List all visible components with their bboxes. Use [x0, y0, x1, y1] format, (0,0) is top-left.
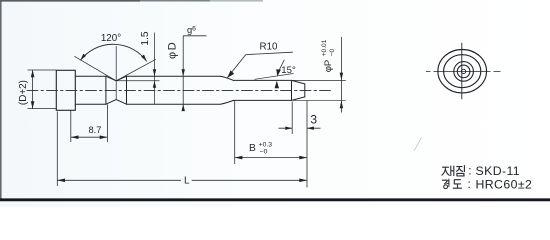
- border left edge: [0, 0, 2, 199]
- R10 leader: [227, 52, 292, 77]
- label phiP with tolerance rotated: [321, 39, 336, 72]
- svg-text:φP: φP: [323, 60, 334, 73]
- arrowheads: [31, 54, 343, 182]
- border top edge: [0, 0, 140, 2]
- svg-text:1.5: 1.5: [140, 31, 151, 45]
- arrow 1.5 bottom (up): [153, 81, 156, 88]
- dim 120 left flank line: [74, 56, 116, 81]
- dim phiP extension lines: [293, 80, 346, 100]
- arrow 3 left (points right): [285, 127, 292, 130]
- svg-text:HRC60±2: HRC60±2: [476, 178, 533, 192]
- arrow 1.5 top (down): [153, 69, 156, 76]
- end view: [426, 43, 501, 99]
- arrow phiD bottom (up, outside): [182, 104, 185, 111]
- groove right face: [126, 76, 128, 104]
- dim L extension left: [56, 112, 58, 187]
- pin head: [56, 70, 75, 110]
- svg-text:−0: −0: [329, 48, 336, 56]
- pin thin shaft: [234, 80, 292, 100]
- dim phiD line: [182, 36, 184, 111]
- svg-text:L: L: [184, 176, 190, 187]
- dim 120 apex line: [115, 46, 117, 100]
- arrow (D+2) top: [31, 70, 35, 77]
- dim 3 extension left: [291, 102, 293, 135]
- arrow L right: [299, 179, 307, 183]
- arrow L left: [57, 179, 65, 183]
- dim B line: [235, 157, 307, 159]
- svg-text:3: 3: [310, 113, 317, 127]
- arrow R10 leader: [227, 70, 234, 78]
- end view tiny center circle: [461, 69, 465, 73]
- arrow 8.7 left: [71, 135, 79, 139]
- svg-text:(D+2): (D+2): [18, 80, 29, 105]
- arrow 8.7 right: [100, 135, 108, 139]
- dim L line: [57, 179, 307, 181]
- border bottom edge: [0, 198, 550, 201]
- hangul 재: [442, 166, 454, 176]
- dim B extension left: [234, 101, 236, 165]
- tip end face: [304, 84, 306, 97]
- end view inner circle 2: [457, 65, 470, 78]
- arrow 120 arc right: [141, 55, 147, 62]
- dim 1.5 line: [154, 33, 156, 105]
- svg-text:+0.01: +0.01: [321, 39, 328, 56]
- arrow phiP top (down, outside): [340, 73, 343, 81]
- groove left face: [105, 76, 107, 104]
- arrow 15deg lower (up): [275, 81, 279, 89]
- pin shaft after groove: [127, 76, 221, 104]
- arrow 15deg leader: [276, 69, 281, 76]
- svg-text:+0.3: +0.3: [259, 142, 273, 149]
- arrow (D+2) bottom: [31, 101, 35, 108]
- groove V top: [106, 76, 127, 81]
- dim (D+2) extension lines: [28, 70, 57, 109]
- svg-text:8.7: 8.7: [89, 125, 102, 135]
- 15 deg chamfer extension line: [255, 74, 294, 80]
- arrow B right: [299, 156, 307, 160]
- hangul 경: [442, 179, 449, 188]
- end view outer circle: [438, 49, 487, 92]
- faint scratch artifact: [414, 138, 422, 152]
- 15 deg leader: [278, 60, 285, 74]
- arrow B left: [235, 156, 243, 160]
- dim 120 arc: [80, 44, 146, 61]
- dim 1.5 lower reference line: [116, 80, 159, 82]
- end view middle circle: [444, 55, 481, 88]
- dim 3 line: [279, 127, 321, 129]
- svg-text:120°: 120°: [101, 33, 121, 44]
- hangul 질: [457, 166, 465, 176]
- svg-text::: :: [468, 163, 471, 177]
- arrow phiD top (down, outside): [182, 69, 185, 76]
- arrow 120 arc left: [80, 54, 86, 61]
- svg-text:15°: 15°: [281, 65, 296, 76]
- extension line tip end (3/B/L): [306, 101, 308, 188]
- hangul 도: [453, 180, 461, 189]
- dim 8.7 line: [71, 136, 108, 138]
- svg-text:SKD-11: SKD-11: [476, 164, 521, 178]
- svg-text:φD: φD: [167, 41, 179, 59]
- end view crosshair vertical: [461, 43, 463, 99]
- g6 leader line: [183, 35, 206, 37]
- dim 120 right flank line: [116, 59, 156, 81]
- dim (D+2) line: [32, 70, 34, 109]
- end view crosshair horizontal: [426, 70, 501, 72]
- pin shaft large section: [75, 76, 106, 104]
- centerline main: [27, 89, 331, 91]
- svg-text:B: B: [249, 143, 256, 154]
- material note row 1: 재질 : SKD-11: [442, 166, 465, 176]
- svg-text:−0: −0: [260, 149, 268, 156]
- arrow phiP bottom (up, outside): [340, 100, 343, 108]
- groove V bottom: [106, 100, 127, 105]
- dim phiP line: [340, 37, 342, 113]
- tip chamfer: [292, 80, 305, 100]
- svg-text::: :: [468, 177, 471, 191]
- end view inner circle: [454, 62, 474, 82]
- arrow 3 right (points left): [307, 127, 314, 130]
- tip chamfer face: [291, 80, 293, 100]
- R10 taper: [221, 76, 234, 104]
- dim 8.7 extension lines: [71, 104, 108, 142]
- svg-text:R10: R10: [260, 42, 279, 53]
- material note row 2: 경도 : HRC60±2: [442, 179, 461, 188]
